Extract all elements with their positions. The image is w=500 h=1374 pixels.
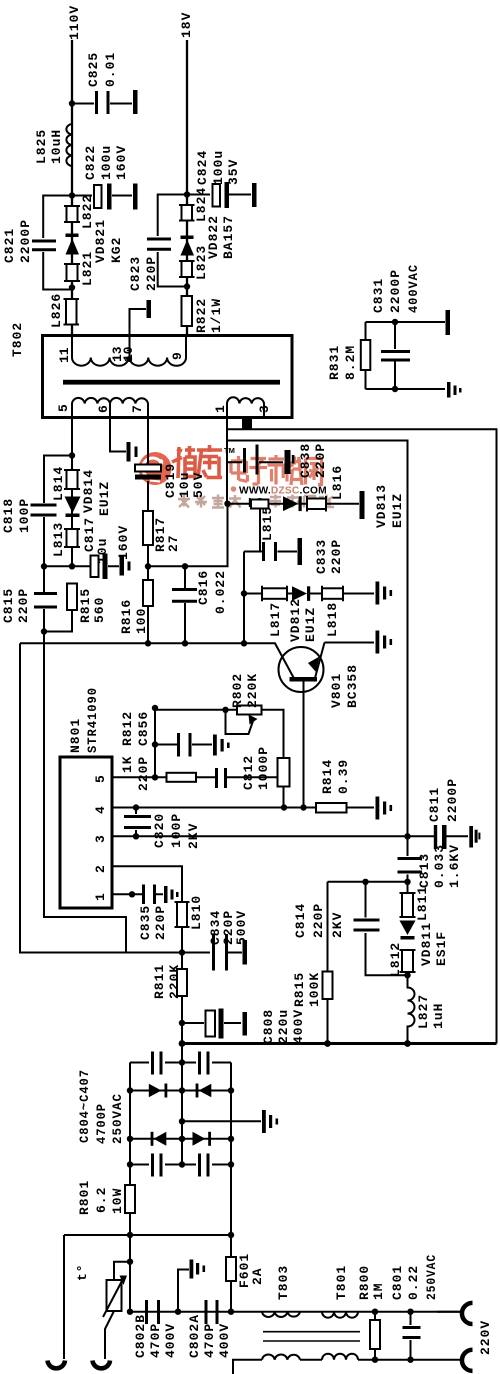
svg-text:C831: C831 (371, 278, 386, 313)
svg-text:ES1F: ES1F (434, 931, 449, 966)
svg-text:2: 2 (93, 865, 108, 873)
svg-text:R831: R831 (327, 345, 342, 380)
svg-text:C808: C808 (261, 1009, 276, 1044)
svg-text:3: 3 (257, 405, 272, 413)
svg-text:R816: R816 (119, 599, 134, 634)
svg-text:2KV: 2KV (330, 912, 345, 938)
svg-text:0.033: 0.033 (432, 844, 447, 888)
svg-text:C822: C822 (83, 145, 98, 180)
svg-text:220K: 220K (167, 964, 182, 999)
svg-text:9: 9 (170, 352, 185, 360)
svg-text:R815: R815 (292, 972, 307, 1007)
svg-text:R811: R811 (152, 964, 167, 999)
svg-text:C820: C820 (152, 813, 167, 848)
svg-text:STR41090: STR41090 (85, 687, 100, 753)
svg-text:C802B: C802B (133, 1314, 148, 1358)
svg-text:KG2: KG2 (109, 237, 124, 263)
svg-text:100: 100 (134, 608, 149, 634)
svg-text:0.022: 0.022 (213, 570, 228, 614)
svg-text:2200P: 2200P (445, 778, 460, 822)
svg-text:V801: V801 (329, 673, 344, 708)
svg-text:C824: C824 (195, 150, 210, 185)
svg-text:400V: 400V (291, 1009, 306, 1044)
svg-text:VD813: VD813 (374, 484, 389, 528)
svg-text:VD811: VD811 (419, 922, 434, 966)
svg-text:6.2: 6.2 (94, 1187, 109, 1213)
svg-text:L812: L812 (388, 942, 403, 977)
svg-text:TM: TM (224, 446, 235, 455)
svg-text:0.39: 0.39 (336, 759, 351, 794)
svg-text:1: 1 (93, 893, 108, 901)
svg-text:5: 5 (93, 775, 108, 783)
svg-text:500V: 500V (234, 910, 249, 945)
svg-text:35V: 35V (226, 159, 241, 185)
svg-text:R802: R802 (230, 673, 245, 708)
svg-text:250VAC: 250VAC (110, 1093, 125, 1144)
svg-text:L821: L821 (80, 251, 95, 286)
svg-text:C821: C821 (2, 228, 17, 263)
svg-text:10uH: 10uH (49, 129, 64, 164)
svg-text:4700P: 4700P (94, 1103, 109, 1144)
svg-text:R812: R812 (120, 711, 135, 746)
svg-text:L823: L823 (194, 245, 209, 280)
svg-text:R801: R801 (77, 1180, 92, 1215)
svg-text:100P: 100P (17, 498, 32, 533)
svg-text:560: 560 (92, 597, 107, 623)
svg-text:220P: 220P (144, 256, 159, 291)
svg-text:BA157: BA157 (221, 215, 236, 259)
svg-text:L827: L827 (416, 994, 431, 1029)
svg-text:C804~C407: C804~C407 (77, 1069, 92, 1143)
svg-text:R815: R815 (78, 588, 93, 623)
svg-text:220u: 220u (276, 1009, 291, 1044)
svg-text:R800: R800 (357, 1265, 372, 1300)
svg-text:EU1Z: EU1Z (97, 481, 112, 516)
svg-text:10u: 10u (95, 538, 110, 564)
svg-text:VD814: VD814 (81, 469, 96, 513)
svg-text:110V: 110V (67, 5, 82, 40)
svg-text:220P: 220P (153, 905, 168, 940)
svg-text:L816: L816 (330, 465, 345, 500)
svg-text:C811: C811 (427, 787, 442, 822)
svg-text:7: 7 (130, 405, 145, 413)
svg-text:2A: 2A (250, 1267, 265, 1285)
svg-text:2200P: 2200P (18, 219, 33, 263)
svg-text:C838: C838 (298, 443, 313, 478)
svg-text:100K: 100K (307, 972, 322, 1007)
svg-text:2200P: 2200P (388, 269, 403, 313)
svg-text:100u: 100u (99, 145, 114, 180)
svg-text:L813: L813 (51, 522, 66, 557)
svg-text:C823: C823 (128, 256, 143, 291)
svg-text:160V: 160V (116, 525, 131, 560)
svg-text:T802: T802 (10, 322, 25, 357)
svg-text:EU1Z: EU1Z (303, 607, 318, 642)
svg-text:L814: L814 (51, 466, 66, 501)
svg-text:220P: 220P (16, 588, 31, 623)
svg-text:L811: L811 (415, 886, 430, 921)
svg-text:C801: C801 (390, 1265, 405, 1300)
svg-text:L818: L818 (325, 602, 340, 637)
svg-text:C818: C818 (1, 498, 16, 533)
svg-text:400V: 400V (217, 1323, 232, 1358)
svg-text:1M: 1M (371, 1282, 386, 1300)
svg-text:t°: t° (75, 1263, 90, 1281)
svg-text:0.01: 0.01 (103, 52, 118, 87)
svg-text:470P: 470P (202, 1323, 217, 1358)
svg-text:220P: 220P (329, 539, 344, 574)
svg-text:VD812: VD812 (288, 598, 303, 642)
svg-text:220P: 220P (313, 443, 328, 478)
svg-text:1K: 1K (120, 755, 135, 773)
svg-text:1/1W: 1/1W (209, 298, 224, 333)
svg-text:C802A: C802A (187, 1314, 202, 1358)
svg-text:L826: L826 (49, 293, 64, 328)
svg-text:C814: C814 (293, 903, 308, 938)
svg-text:C825: C825 (86, 52, 101, 87)
svg-text:N801: N801 (68, 718, 83, 753)
svg-text:470P: 470P (148, 1323, 163, 1358)
svg-text:L817: L817 (268, 602, 283, 637)
svg-text:C835: C835 (138, 905, 153, 940)
svg-text:10: 10 (121, 346, 136, 362)
svg-text:1.6KV: 1.6KV (447, 844, 462, 888)
svg-text:C815: C815 (1, 588, 16, 623)
svg-text:R822: R822 (194, 298, 209, 333)
svg-text:220K: 220K (245, 673, 260, 708)
svg-text:400VAC: 400VAC (406, 264, 421, 313)
svg-text:8.2M: 8.2M (343, 345, 358, 380)
svg-text:C819: C819 (163, 463, 178, 498)
svg-text:160V: 160V (114, 145, 129, 180)
svg-text:27: 27 (166, 534, 181, 552)
svg-text:L815: L815 (260, 506, 275, 541)
svg-text:100P: 100P (169, 813, 184, 848)
svg-text:C812: C812 (241, 755, 256, 790)
svg-text:220V: 220V (478, 1320, 493, 1355)
svg-text:C816: C816 (196, 570, 211, 605)
svg-text:C813: C813 (417, 853, 432, 888)
svg-text:4: 4 (93, 806, 108, 814)
svg-text:BC358: BC358 (345, 664, 360, 708)
svg-text:5: 5 (56, 404, 71, 412)
svg-text:C833: C833 (314, 539, 329, 574)
svg-text:0.22: 0.22 (406, 1265, 421, 1300)
svg-text:10W: 10W (110, 1188, 125, 1214)
svg-text:1: 1 (213, 405, 228, 413)
svg-text:T801: T801 (334, 1265, 349, 1300)
svg-text:T803: T803 (276, 1265, 291, 1300)
svg-text:L825: L825 (34, 129, 49, 164)
svg-text:220P: 220P (311, 903, 326, 938)
svg-text:100u: 100u (211, 150, 226, 185)
svg-text:18V: 18V (179, 12, 194, 38)
svg-text:6: 6 (96, 405, 111, 413)
svg-text:11: 11 (57, 347, 72, 363)
svg-text:10u: 10u (177, 472, 192, 498)
svg-text:220P: 220P (136, 756, 151, 791)
svg-text:250VAC: 250VAC (424, 1254, 439, 1300)
svg-text:VD821: VD821 (93, 219, 108, 263)
svg-text:50V: 50V (191, 472, 206, 498)
svg-text:400V: 400V (163, 1323, 178, 1358)
svg-text:1uH: 1uH (431, 1003, 446, 1029)
svg-text:R814: R814 (320, 759, 335, 794)
svg-text:C856: C856 (136, 711, 151, 746)
svg-text:3: 3 (93, 835, 108, 843)
svg-text:L810: L810 (189, 895, 204, 930)
svg-text:EU1Z: EU1Z (390, 493, 405, 528)
svg-text:1000P: 1000P (256, 746, 271, 790)
